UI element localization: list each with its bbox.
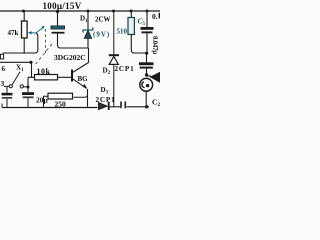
wire node up to base line	[27, 77, 29, 87]
wire D2 anode down to D3	[113, 64, 115, 106]
svg-text:2CW: 2CW	[95, 16, 111, 24]
svg-text:3DG202C: 3DG202C	[54, 53, 86, 62]
resistor R2 250 body	[48, 93, 73, 99]
diode D2 cathode bar	[109, 54, 119, 56]
switch K contact right	[20, 85, 23, 88]
wire probe terminal X1	[0, 61, 32, 63]
arrow to external (right edge)	[147, 75, 151, 77]
wire zener anode down to node	[87, 39, 89, 48]
transistor collector	[73, 63, 89, 73]
svg-text:0.047μ: 0.047μ	[151, 36, 158, 54]
potentiometer RP 47k body	[22, 21, 28, 38]
node junction earphone top	[145, 73, 148, 76]
svg-text:(9V): (9V)	[93, 31, 110, 39]
wire emitter branch to 250	[74, 95, 88, 98]
wire pot bottom lead down to left wire	[23, 38, 25, 54]
capacitor C5 lead	[146, 11, 148, 27]
transistor BG 3DG202C base bar	[71, 70, 73, 82]
battery cell plates	[6, 86, 8, 92]
svg-text:3: 3	[1, 79, 5, 88]
resistor R3 510 body	[128, 18, 134, 35]
svg-text:2CP1: 2CP1	[96, 96, 116, 104]
wire 250 left lead down to rail	[44, 96, 49, 107]
wire earphone to bottom rail	[145, 91, 147, 107]
capacitor across earphone plates	[139, 62, 154, 65]
diode D2 lead from rail	[113, 11, 115, 55]
diode D3 triangle	[99, 103, 108, 110]
svg-text:510: 510	[117, 28, 128, 36]
svg-text:6: 6	[2, 65, 6, 73]
svg-text:47k: 47k	[8, 29, 19, 37]
earphone inner marks	[142, 82, 145, 88]
node junction 510/C5	[145, 52, 148, 55]
node junction switch/20u	[27, 86, 30, 89]
earphone symbol circle	[140, 78, 153, 91]
svg-text:10k: 10k	[37, 67, 51, 76]
wire X1 node down to base line	[31, 62, 33, 77]
potentiometer wiper arrow (teal)	[31, 32, 36, 34]
dashed link diagonal to switch lever	[34, 44, 52, 66]
partial digit cut at edge	[159, 13, 160, 19]
node junction at X1	[29, 61, 32, 64]
wire top supply rail	[0, 10, 160, 12]
capacitor series bottom plates	[120, 102, 122, 109]
terminal tick bottom-left	[1, 104, 3, 108]
wire pot top lead	[23, 11, 25, 21]
capacitor C1 100u/15V plates	[51, 26, 65, 29]
switch K contact left	[9, 85, 12, 88]
diode D2 triangle	[109, 56, 118, 64]
zener diode D1 lead from rail	[87, 11, 89, 30]
wire emitter down	[87, 89, 89, 107]
svg-text:20μ: 20μ	[36, 96, 49, 105]
switch K lever	[12, 72, 20, 85]
wire 100u negative lead to collector node	[58, 34, 89, 48]
svg-text:0.: 0.	[152, 12, 158, 21]
wire collector riser	[88, 48, 90, 63]
wire after D3	[110, 106, 120, 108]
wire 10k left lead	[28, 76, 35, 78]
transistor emitter with arrow	[73, 79, 87, 89]
wiper link arrow up-right (teal)	[36, 28, 43, 34]
resistor R1 10k body	[35, 75, 58, 80]
wire switch to node	[24, 86, 29, 88]
svg-text:BG: BG	[78, 75, 89, 83]
dashed link vertical from wiper arrow	[45, 29, 47, 53]
capacitor C1 100u/15V top lead	[57, 11, 59, 26]
zener diode D1 cathode bar with bent ends	[83, 27, 93, 32]
wire wiper to left terminal	[3, 33, 38, 53]
wire bottom rail right segment	[127, 106, 150, 108]
terminal square at left end of wiper wire	[0, 54, 3, 59]
diode D3 cathode bar	[108, 102, 110, 110]
wire base lead from 10k	[58, 76, 72, 78]
wire battery to switch	[4, 85, 9, 87]
svg-text:2CP1: 2CP1	[115, 65, 135, 73]
capacitor C3 20u	[27, 88, 29, 92]
svg-text:100μ/15V: 100μ/15V	[43, 1, 82, 11]
wire bottom rail left segment	[2, 107, 98, 109]
wire C5 bottom to node	[146, 33, 148, 53]
capacitor across earphone leads	[146, 53, 148, 62]
resistor R3 510 top lead	[130, 11, 132, 18]
capacitor C5 plates	[141, 27, 154, 30]
node junction dots on top rail	[22, 10, 25, 13]
zener diode D1 triangle	[84, 30, 92, 38]
wire 510 bottom to node	[131, 35, 146, 54]
